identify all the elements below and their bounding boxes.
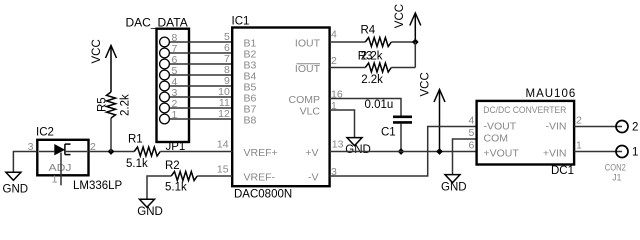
svg-text:2: 2 (576, 115, 582, 127)
wire VLC pin1 to ground (330, 110, 355, 138)
svg-text:R2: R2 (165, 160, 180, 172)
wire B1 (170, 41, 231, 43)
wire DC1 COM pin5 to ground (453, 139, 477, 175)
wire /IOUT pin2 to R3 (330, 67, 366, 69)
ground (IC2 pin 3) (3, 172, 29, 195)
node junction R5/VREF+ (108, 148, 115, 155)
wire B2 (170, 52, 231, 54)
svg-text:-VIN: -VIN (546, 121, 567, 133)
svg-text:2: 2 (331, 55, 337, 67)
svg-text:DAC0800N: DAC0800N (234, 189, 292, 201)
IC1 pin numbers right (4,2,16,1,13,3) (331, 29, 344, 178)
svg-text:5.1k: 5.1k (165, 182, 187, 194)
svg-text:DC1: DC1 (551, 165, 574, 177)
svg-text:R1: R1 (128, 134, 143, 146)
wire R5 bottom (110, 118, 112, 152)
DC1 pin labels (484, 121, 567, 160)
svg-text:C1: C1 (381, 126, 396, 138)
svg-text:1: 1 (52, 174, 58, 186)
svg-text:B8: B8 (244, 114, 257, 126)
capacitor C1 0.01u (365, 99, 413, 139)
DC/DC converter DC1 MAU106 box (477, 88, 577, 177)
ground (DC1 COM) (441, 175, 467, 194)
ground (VLC) (345, 138, 371, 157)
wire IC1 VREF- to R2 (197, 175, 232, 177)
wire DC1 +VIN to CON2 pad 1 (574, 151, 622, 153)
svg-text:VCC: VCC (394, 4, 406, 28)
wire B8 (170, 118, 231, 120)
ground (R2) (137, 199, 163, 218)
wire +V rail pin13 to DC1 pin6 (330, 151, 477, 153)
svg-text:VLC: VLC (300, 105, 321, 117)
power VCC (above R5) (91, 39, 117, 92)
svg-text:2.2k: 2.2k (361, 74, 383, 86)
svg-text:-V: -V (308, 171, 319, 183)
resistor R1 5.1k (126, 134, 160, 170)
svg-text:4: 4 (468, 115, 474, 127)
svg-text:GND: GND (345, 144, 371, 156)
wire C1 to +V rail (400, 124, 402, 152)
node junction R4/R3/VCC (412, 39, 419, 46)
svg-text:VREF-: VREF- (244, 171, 276, 183)
wire node down to R3 (414, 42, 416, 68)
wire B3 (170, 63, 231, 65)
wire B7 (170, 107, 231, 109)
svg-text:+VOUT: +VOUT (484, 148, 520, 160)
svg-text:LM336LP: LM336LP (73, 180, 123, 192)
wire IOUT pin4 to R4 (330, 41, 366, 43)
power VCC (rail) (420, 72, 446, 151)
wire IC2 pin2 to R1 (VREF+ net) (89, 151, 135, 153)
svg-text:14: 14 (217, 139, 229, 151)
svg-text:MAU106: MAU106 (526, 88, 577, 100)
svg-text:GND: GND (137, 206, 163, 218)
wire IC2 pin3 to ground (13, 152, 37, 173)
node junction VCC/rail (436, 148, 443, 155)
svg-text:DC/DC CONVERTER: DC/DC CONVERTER (483, 105, 566, 115)
wire R1 to IC1 VREF+ (160, 151, 232, 153)
wire -V pin3 to DC1 pin4 (330, 127, 477, 177)
resistor R4 2.2k (361, 25, 392, 63)
svg-text:ADJ: ADJ (49, 162, 72, 174)
resistor R3 2.2k (358, 50, 392, 86)
node junction C1/rail (398, 148, 405, 155)
svg-text:R5: R5 (97, 97, 109, 112)
wire B6 (170, 96, 231, 98)
svg-text:2: 2 (632, 121, 638, 133)
svg-text:+VIN: +VIN (543, 147, 567, 159)
wire B4 (170, 74, 231, 76)
svg-text:12: 12 (218, 108, 230, 120)
svg-text:4: 4 (331, 29, 337, 41)
svg-text:2.2k: 2.2k (119, 94, 131, 116)
IOUT overline (pin 2) (297, 63, 321, 65)
svg-text:5.1k: 5.1k (126, 158, 148, 170)
svg-text:VCC: VCC (420, 72, 432, 96)
IC1 pin numbers left (5-12) (217, 31, 230, 175)
svg-text:IOUT: IOUT (295, 37, 321, 49)
svg-text:J1: J1 (612, 173, 621, 183)
svg-text:-VOUT: -VOUT (484, 121, 517, 133)
wire R3 to VCC node column (391, 67, 415, 69)
svg-text:IC1: IC1 (232, 15, 250, 27)
JP1 pin numbers 8..1 (172, 32, 178, 121)
zener diode inside IC2 (39, 144, 87, 155)
resistor R2 5.1k (165, 160, 197, 194)
resistor R5 2.2k (vertical) (97, 92, 132, 118)
connector CON2 J1 pads (605, 121, 639, 183)
IC2 ADJ pin 1 stub (60, 153, 62, 186)
DC1 pin numbers (468, 115, 582, 152)
svg-text:IC2: IC2 (36, 127, 54, 139)
svg-text:+V: +V (305, 147, 318, 159)
svg-text:COMP: COMP (289, 94, 321, 106)
IC1 pin labels (244, 37, 321, 183)
svg-text:R4: R4 (361, 25, 376, 37)
svg-text:IOUT: IOUT (295, 63, 321, 75)
svg-text:15: 15 (217, 163, 229, 175)
wire B5 (170, 85, 231, 87)
DAC IC1 DAC0800N box (232, 15, 330, 200)
svg-text:GND: GND (441, 181, 467, 193)
wire R4 to VCC node (391, 41, 415, 43)
connector JP1 (157, 29, 190, 142)
svg-text:VCC: VCC (91, 39, 103, 63)
svg-text:1: 1 (576, 140, 582, 152)
svg-text:CON2: CON2 (605, 163, 626, 173)
svg-text:GND: GND (3, 184, 29, 196)
wire DC1 -VIN to CON2 pad 2 (574, 126, 622, 128)
svg-text:VREF+: VREF+ (244, 147, 278, 159)
svg-text:5: 5 (468, 127, 474, 139)
wire COMP pin16 to C1 (330, 99, 401, 116)
svg-text:13: 13 (332, 139, 344, 151)
svg-text:1: 1 (632, 146, 638, 158)
svg-text:R3: R3 (358, 50, 373, 62)
svg-text:COM: COM (484, 132, 509, 144)
svg-text:DAC_DATA: DAC_DATA (126, 16, 188, 30)
power VCC (above R4) (394, 4, 421, 42)
IC2 LM336LP box (36, 127, 123, 192)
svg-text:6: 6 (468, 140, 474, 152)
wire R2 to ground (147, 176, 171, 200)
svg-text:0.01u: 0.01u (365, 99, 394, 111)
